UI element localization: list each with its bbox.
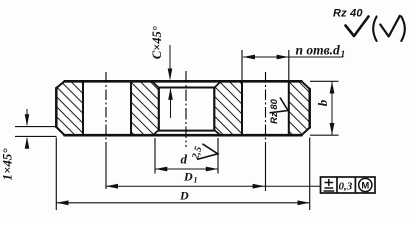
dimension d line xyxy=(155,168,218,170)
chamfer 1x45 up arrow xyxy=(26,138,28,147)
dimension n arrows xyxy=(243,55,289,60)
paren right xyxy=(401,17,405,42)
extension line chamfer 1x45 upper xyxy=(15,126,57,128)
extension line D1 left xyxy=(105,144,107,189)
dimension b arrows xyxy=(330,82,335,136)
roughness check mark secondary xyxy=(380,16,400,37)
svg-text:b: b xyxy=(315,99,330,106)
dimension D1 line with leader to frame xyxy=(106,185,321,187)
bore chamfer edge line bottom xyxy=(159,130,215,132)
centerline bolt hole left xyxy=(105,72,107,144)
bore right wall xyxy=(213,88,215,131)
chamfer top-right 1x45 xyxy=(302,81,310,89)
tolerance frame xyxy=(321,177,376,193)
extension line D right xyxy=(309,138,311,211)
bore chamfer diag top-left xyxy=(152,81,159,87)
chamfer C up arrow xyxy=(170,89,172,118)
chamfer bottom-right 1x45 xyxy=(302,128,310,136)
dimension D1 arrows xyxy=(106,184,265,189)
bolt hole right, right wall xyxy=(288,81,290,135)
centerline main axis xyxy=(185,71,187,147)
svg-text:d: d xyxy=(181,152,188,167)
bore chamfer edge line top xyxy=(159,87,215,89)
2,5 check mark on extension line xyxy=(197,144,218,160)
chamfer bottom-left 1x45 xyxy=(56,127,64,135)
bore left wall xyxy=(158,88,160,131)
extension line n-holes left xyxy=(241,50,243,80)
chamfer top-left 1x45 xyxy=(56,81,64,88)
roughness check mark main xyxy=(346,17,369,37)
dimension d arrows xyxy=(155,167,218,172)
bore chamfer diag top-right xyxy=(214,81,221,87)
centerline bolt hole right xyxy=(265,72,267,144)
svg-text:C×45°: C×45° xyxy=(150,26,164,59)
bolt hole left, left wall xyxy=(82,81,84,135)
svg-text:D: D xyxy=(183,170,193,184)
hatch right hub block xyxy=(208,75,248,141)
bore chamfer diag bottom-left xyxy=(153,130,159,135)
dimension n otv d1 line with shelf xyxy=(243,56,343,58)
chamfer 1x45 down arrow xyxy=(26,109,28,125)
circled M modifier xyxy=(359,178,372,191)
bore chamfer diag bottom-right xyxy=(214,130,220,135)
extension line n-holes right xyxy=(288,50,290,80)
top face xyxy=(65,80,302,83)
svg-text:D: D xyxy=(179,189,189,203)
svg-text:0,3: 0,3 xyxy=(339,181,353,193)
extension line d right xyxy=(217,138,219,174)
hatch left hub block xyxy=(125,75,165,141)
symmetry symbol plus-minus xyxy=(324,179,335,191)
right edge D xyxy=(308,89,311,128)
extension line D left xyxy=(55,138,57,211)
bolt hole left, right wall xyxy=(130,81,132,135)
dimension D line xyxy=(57,202,310,204)
Rz80 check mark on hole wall xyxy=(270,98,289,113)
bottom face xyxy=(65,134,302,137)
dimension D arrows xyxy=(57,200,310,205)
svg-text:1: 1 xyxy=(194,176,198,185)
extension line D1 right xyxy=(265,144,267,191)
extension line b top xyxy=(310,80,339,82)
extension line b bottom xyxy=(310,134,339,136)
hatch left rim xyxy=(50,75,90,141)
svg-text:Rz 40: Rz 40 xyxy=(333,8,363,20)
extension line chamfer 1x45 lower xyxy=(15,135,57,137)
svg-text:M: M xyxy=(361,181,369,192)
svg-text:1: 1 xyxy=(341,50,346,60)
paren left xyxy=(373,17,376,42)
dimension b line xyxy=(331,82,333,136)
hatch right rim xyxy=(283,75,316,141)
left edge D xyxy=(55,88,58,127)
bolt hole right, left wall xyxy=(241,81,243,135)
leader C chamfer down arrow xyxy=(169,45,171,79)
svg-text:1×45°: 1×45° xyxy=(0,148,15,181)
svg-text:n отв.d: n отв.d xyxy=(296,43,341,58)
extension line d left xyxy=(154,138,156,174)
